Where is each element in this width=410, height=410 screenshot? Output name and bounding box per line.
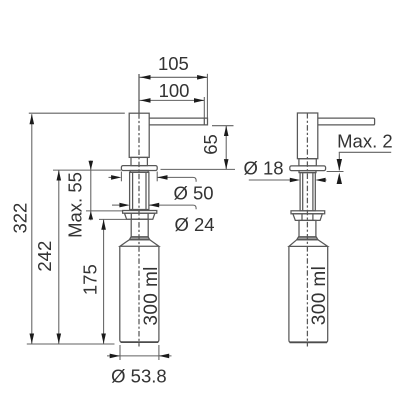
left shaft inner thread lines (132, 172, 134, 209)
left bottle thread band (129, 237, 149, 240)
Ø53.8 dim line (107, 355, 172, 357)
svg-text:Ø 50: Ø 50 (173, 183, 213, 204)
dim max55 line (90, 161, 92, 221)
arrow O18 left (pointing right) (290, 178, 300, 183)
arrow 100 right (194, 98, 204, 103)
arrow O50 left (111, 175, 121, 180)
arrow 322 top (30, 114, 35, 124)
left dispenser pump body (129, 113, 149, 157)
arrow 322 bottom (30, 334, 35, 344)
svg-text:322: 322 (10, 203, 31, 234)
right threaded shaft (300, 173, 315, 211)
right hex nut facets (301, 214, 303, 221)
arrow 175 bottom (101, 334, 106, 344)
right hex nut (293, 214, 322, 221)
left centerline (138, 74, 140, 113)
arrow 65 top (224, 126, 229, 136)
arrow O24 left (119, 203, 129, 208)
left spout end cap line (203, 118, 205, 125)
right dispenser pump neck (299, 159, 316, 166)
right shaft inner thread lines (302, 173, 304, 211)
arrow 175 top (101, 220, 106, 230)
Max2 vertical line (338, 152, 340, 170)
ext line for 100 (203, 97, 205, 118)
dimension lines group (27, 74, 391, 360)
dim 175 line (103, 220, 105, 344)
svg-text:100: 100 (159, 80, 190, 101)
Ø18 leader left (249, 179, 292, 181)
arrow 242 top (57, 170, 62, 180)
dim 100 line (139, 99, 204, 101)
right centerline (306, 113, 308, 347)
ext line 242/max55 top (53, 169, 121, 171)
arrow max55 top (outside pointing down) (89, 161, 94, 170)
arrow O53.8 right (159, 354, 169, 359)
Ø24 leader right (149, 205, 196, 209)
svg-text:65: 65 (200, 134, 221, 155)
right bottle body (289, 246, 328, 342)
arrow 65 bottom (224, 159, 229, 169)
arrow O18 right (pointing left) (315, 178, 325, 183)
left threaded shaft (130, 172, 149, 209)
svg-text:Ø 24: Ø 24 (174, 214, 214, 235)
svg-text:Ø 53.8: Ø 53.8 (111, 366, 167, 387)
Ø50 leader left tail (109, 176, 113, 178)
ext line max55 bottom (86, 210, 122, 212)
Ø50 ext lines (120, 172, 122, 182)
svg-text:300 ml: 300 ml (141, 266, 162, 325)
ext line 65 top (212, 125, 234, 127)
left dispenser pump neck (131, 157, 147, 165)
ext line 65 bottom (161, 168, 236, 170)
right bottle thread band (297, 237, 318, 240)
arrow 242 bottom (57, 334, 62, 344)
ext line 175 top (99, 218, 131, 220)
left flange lower washer (130, 171, 148, 173)
right dispenser spout (318, 118, 375, 125)
right dispenser pump body (297, 113, 317, 159)
arrow max55 bottom (outside pointing up) (89, 211, 94, 219)
ext line bottom common (27, 343, 115, 345)
svg-text:105: 105 (158, 53, 189, 74)
ext line for 105 (206, 74, 208, 118)
right bottle bottom line (290, 341, 327, 343)
dim 242 line (58, 170, 60, 344)
Max2 tick line (327, 171, 344, 173)
right dispenser flange (290, 166, 326, 171)
right flange lower washer (299, 171, 316, 173)
left nut washer (123, 211, 157, 214)
svg-text:Ø 18: Ø 18 (243, 157, 283, 178)
dim 105 line (139, 76, 207, 78)
svg-text:Max. 55: Max. 55 (65, 172, 86, 238)
Ø53.8 ext lines (119, 345, 121, 360)
arrow O50 right (157, 175, 167, 180)
svg-text:242: 242 (34, 241, 55, 272)
svg-text:175: 175 (80, 264, 101, 295)
left hex nut facets (130, 213, 132, 219)
right bottle shoulder (289, 240, 328, 247)
svg-text:300 ml: 300 ml (309, 266, 330, 325)
arrow O53.8 left (110, 354, 120, 359)
left bottle bottom line (121, 341, 159, 343)
left hex nut (125, 213, 155, 219)
arrow 100 left (140, 98, 150, 103)
Max2 leader horizontal (339, 151, 391, 153)
left dispenser spout (149, 118, 207, 125)
arrowheads (30, 75, 343, 358)
Ø18 leader right tail (324, 179, 327, 181)
svg-text:Max. 2: Max. 2 (337, 130, 393, 151)
arrow 105 right (197, 75, 207, 80)
left dispenser flange (121, 166, 157, 171)
arrow max2 bottom (pointing up) (337, 173, 342, 184)
ext line 322 top (29, 112, 125, 114)
right nut washer (291, 211, 325, 214)
arrow max2 top (pointing down) (337, 159, 342, 171)
arrow O24 right (149, 203, 159, 208)
Ø50 leader right (157, 177, 196, 181)
dim 322 line (31, 114, 33, 343)
arrow 105 left (140, 75, 150, 80)
left bottle shoulder (120, 240, 159, 247)
Ø24 leader left tail (112, 204, 120, 206)
left bottle neck cylinder (131, 219, 148, 237)
dim 65 line (225, 126, 227, 170)
left bottle body (120, 246, 159, 342)
right bottle neck cylinder (299, 220, 316, 237)
